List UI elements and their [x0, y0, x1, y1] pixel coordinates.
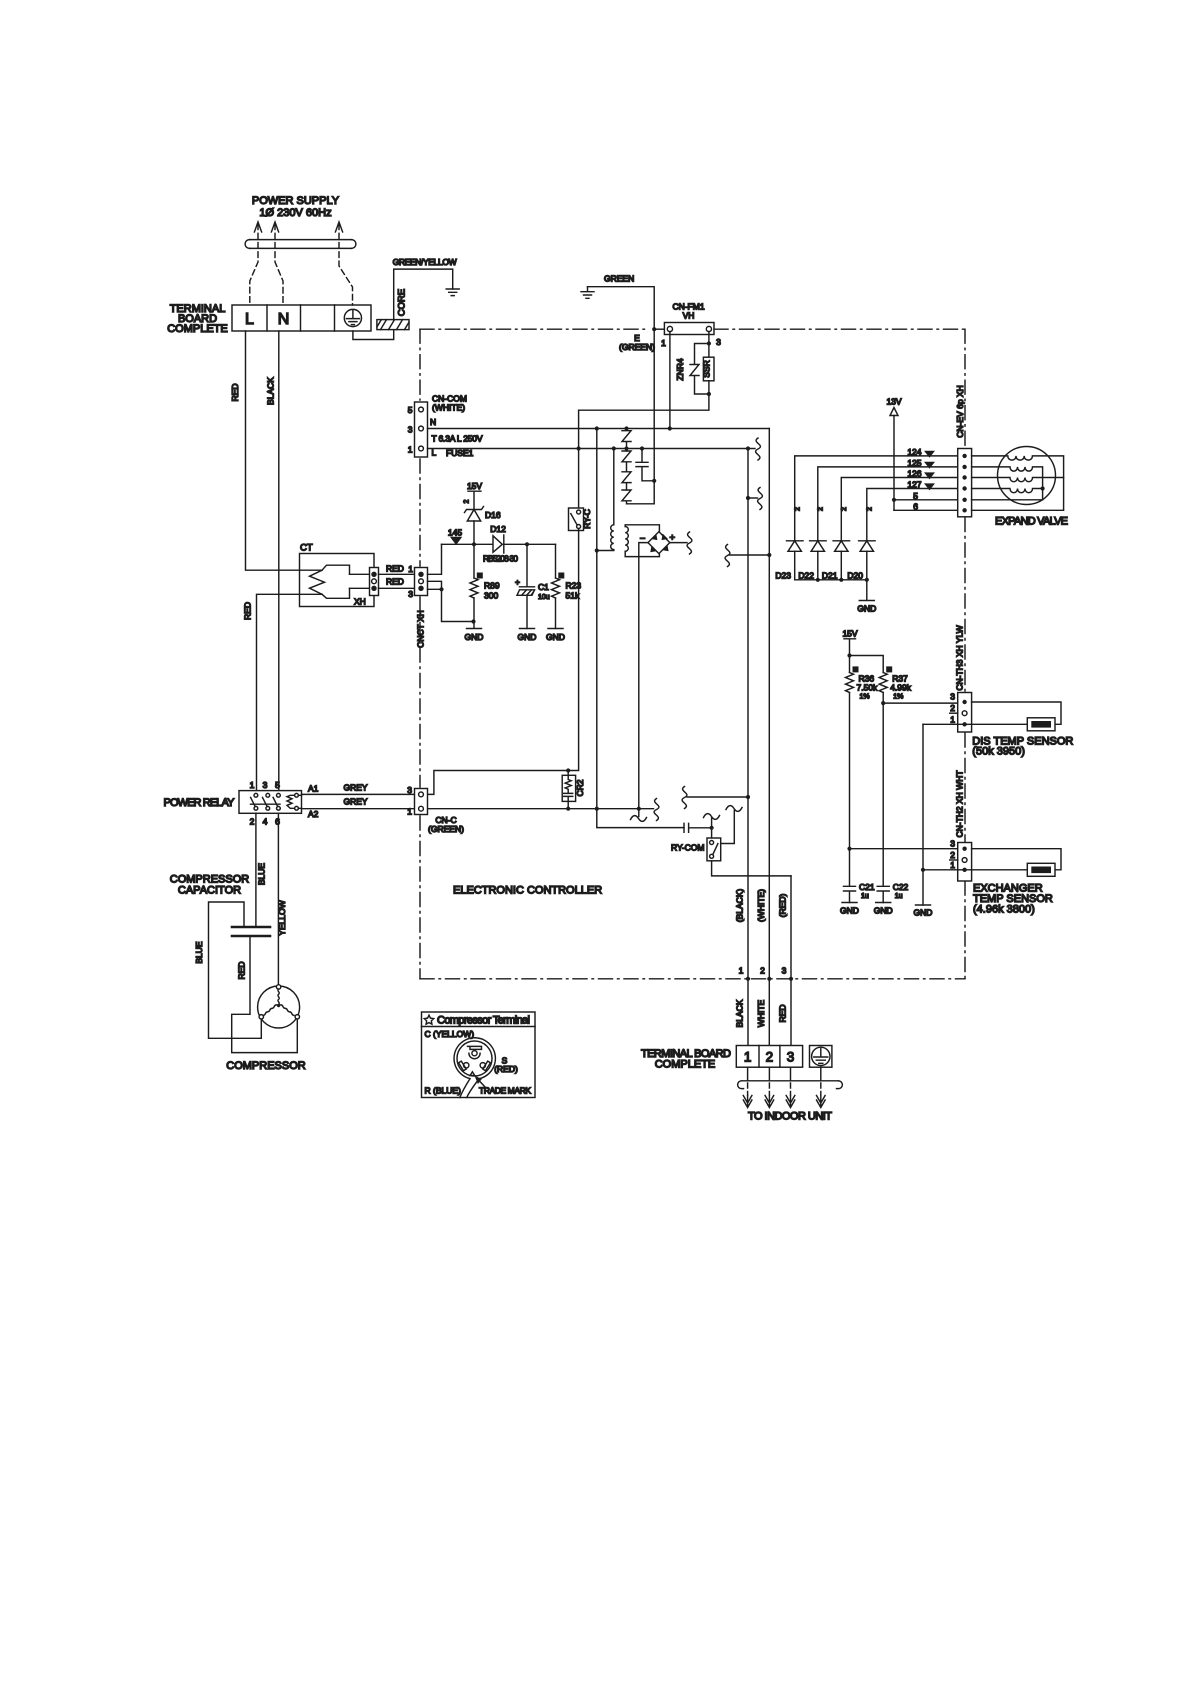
junction	[767, 553, 771, 557]
ground symbol green/yellow	[446, 289, 459, 296]
svg-text:7.50k: 7.50k	[857, 683, 879, 693]
svg-text:POWER RELAY: POWER RELAY	[164, 797, 236, 809]
wire FM1 pin1 down	[669, 332, 671, 429]
ground sensors	[914, 905, 933, 918]
supply arrow 2	[271, 222, 283, 305]
dashed leads to indoor unit	[748, 1083, 821, 1095]
ground terminal bottom	[810, 1046, 832, 1068]
junction CR2 top	[566, 768, 570, 772]
SSR	[702, 344, 715, 395]
connector CN-COM	[408, 402, 428, 457]
svg-text:GND: GND	[857, 604, 876, 614]
ground terminal symbol	[344, 309, 361, 326]
svg-text:CN-EV 6p XH: CN-EV 6p XH	[955, 385, 965, 437]
svg-text:TO INDOOR UNIT: TO INDOOR UNIT	[748, 1111, 832, 1123]
wire EV row 126	[841, 478, 957, 541]
wire EV row 5	[894, 499, 958, 501]
boundary bottom dash-dot	[420, 978, 965, 980]
boundary top dash-dot	[420, 328, 649, 330]
junctions rail	[816, 578, 869, 582]
junction	[472, 542, 476, 546]
svg-text:(50k 3950): (50k 3950)	[972, 746, 1025, 758]
zener diode D16	[465, 507, 501, 545]
svg-text:3: 3	[263, 780, 268, 790]
svg-text:1: 1	[407, 807, 412, 817]
svg-text:+: +	[670, 533, 676, 544]
svg-text:13V: 13V	[886, 397, 901, 407]
svg-text:125: 125	[907, 458, 921, 468]
terminal board complete label (top)	[167, 303, 228, 335]
svg-text:RY-COM: RY-COM	[671, 843, 705, 853]
svg-text:GND: GND	[465, 632, 484, 642]
svg-text:2: 2	[766, 1050, 774, 1065]
resistor R36	[846, 656, 879, 849]
relay contact RY-C	[569, 449, 593, 531]
svg-text:COMPRESSOR: COMPRESSOR	[226, 1060, 306, 1072]
svg-text:D12: D12	[490, 524, 506, 534]
svg-text:CN-TH2 XH WHT: CN-TH2 XH WHT	[955, 770, 965, 837]
ground C1	[518, 629, 537, 643]
label L FUSE1	[432, 448, 474, 459]
wire ground terminal to core	[353, 330, 394, 340]
svg-text:1Ø 230V 60Hz: 1Ø 230V 60Hz	[259, 207, 331, 219]
junction pin3	[707, 341, 711, 345]
labels 124-127 5 6	[907, 447, 921, 511]
svg-text:BLUE: BLUE	[194, 941, 204, 964]
svg-text:BLACK: BLACK	[266, 377, 276, 405]
svg-text:COMPLETE: COMPLETE	[655, 1059, 716, 1071]
legend star	[424, 1015, 433, 1024]
wire CT to CNCT	[379, 574, 415, 588]
svg-text:BLACK: BLACK	[735, 999, 745, 1027]
wire A2 grey	[298, 807, 414, 809]
label CN-COM (WHITE)	[432, 394, 467, 413]
junction	[710, 826, 714, 830]
svg-text:RY-C: RY-C	[582, 509, 592, 529]
wire 15V branch	[850, 656, 884, 673]
svg-text:5: 5	[913, 491, 918, 501]
15V supply right	[842, 629, 857, 656]
svg-text:6: 6	[913, 501, 918, 511]
supply arrow 1	[250, 222, 262, 305]
svg-text:RED: RED	[230, 384, 240, 402]
diode D23	[775, 541, 803, 581]
svg-text:RED: RED	[386, 564, 404, 574]
labels (BLACK)(WHITE)(RED)	[735, 889, 788, 923]
svg-text:2: 2	[795, 507, 802, 511]
wire TH2 pin3 loop	[972, 849, 1061, 870]
compressor motor	[258, 985, 300, 1028]
wire N black	[278, 331, 280, 791]
junction znr bottom	[707, 392, 711, 396]
wire broken to black	[682, 787, 750, 809]
svg-text:5: 5	[408, 405, 413, 415]
svg-text:C21: C21	[859, 882, 875, 892]
svg-text:10u: 10u	[538, 594, 550, 601]
junction green at boundary	[652, 327, 656, 331]
svg-text:RED: RED	[778, 1005, 788, 1023]
wire sensor gnd vertical	[922, 724, 924, 905]
wires below terminal board	[748, 1067, 821, 1081]
connector CN-EV 6p XH	[958, 449, 972, 517]
wire cap bottom red	[232, 936, 298, 1053]
svg-text:CR2: CR2	[575, 779, 585, 796]
label S (RED)	[494, 1056, 518, 1075]
boundary crossing junctions	[746, 977, 793, 981]
compressor capacitor	[232, 927, 270, 936]
wire relay pin2 blue	[255, 813, 257, 927]
connector CN-C	[407, 785, 427, 817]
svg-text:T 6.3A L 250V: T 6.3A L 250V	[432, 434, 483, 444]
wire relay pin6 yellow	[277, 813, 279, 985]
svg-text:2: 2	[950, 850, 955, 860]
svg-text:N: N	[278, 311, 290, 328]
CT side connector	[370, 568, 379, 596]
svg-text:1: 1	[408, 564, 413, 574]
junctions pin1 rail	[566, 807, 641, 811]
svg-text:3: 3	[950, 692, 955, 702]
wire broken to N vertical	[730, 554, 770, 556]
svg-text:1: 1	[950, 860, 955, 870]
svg-text:127: 127	[907, 480, 921, 490]
bridge rectifier	[640, 532, 676, 554]
svg-text:GREY: GREY	[343, 783, 367, 793]
svg-text:GREEN/YELLOW: GREEN/YELLOW	[393, 257, 457, 267]
svg-text:Compressor Terminal: Compressor Terminal	[437, 1015, 530, 1027]
svg-text:3: 3	[950, 839, 955, 849]
wire 15V node rail	[442, 543, 556, 545]
power relay	[239, 791, 302, 814]
wire R36 to TH2	[850, 848, 958, 850]
svg-text:1: 1	[408, 445, 413, 455]
svg-text:C22: C22	[893, 882, 909, 892]
svg-text:C1: C1	[538, 582, 549, 592]
snubber CR2	[562, 771, 585, 809]
svg-text:(RED): (RED)	[778, 894, 788, 918]
terminal drawing outer loop	[454, 1038, 495, 1098]
svg-text:(GREEN): (GREEN)	[428, 824, 464, 834]
svg-text:126: 126	[907, 469, 921, 479]
ground C21	[840, 903, 859, 916]
junction R36 out	[847, 847, 851, 851]
diode D21	[822, 541, 850, 581]
svg-text:R (BLUE): R (BLUE)	[425, 1086, 462, 1096]
polarity marks rows	[924, 451, 935, 491]
svg-text:GND: GND	[840, 906, 859, 916]
svg-text:D21: D21	[822, 571, 838, 581]
svg-text:1%: 1%	[893, 694, 903, 701]
svg-text:1: 1	[661, 338, 666, 348]
terminal S right	[480, 1061, 490, 1071]
ground symbol green	[581, 287, 594, 299]
svg-text:RB5208-30: RB5208-30	[483, 554, 518, 564]
wire L red	[246, 331, 323, 570]
compressor terminal legend box	[422, 1012, 536, 1098]
break squiggle rail end	[654, 799, 659, 821]
connector CN-TH3	[950, 692, 972, 733]
svg-text:1: 1	[950, 715, 955, 725]
ground diodes	[857, 580, 876, 614]
15V supply left	[467, 481, 482, 510]
junctions L rail	[577, 446, 751, 450]
trade mark arrow	[476, 1077, 486, 1088]
CT current transformer	[300, 543, 375, 607]
capacitor RY-COM series	[684, 823, 712, 832]
wire white vertical	[768, 429, 770, 1046]
break squiggle	[725, 545, 730, 567]
wire bridge plus out	[670, 542, 687, 544]
ground R89	[465, 622, 484, 643]
wire TH3 pin3 loop	[972, 702, 1061, 724]
svg-text:POWER SUPPLY: POWER SUPPLY	[252, 195, 340, 207]
svg-text:3: 3	[407, 785, 412, 795]
svg-text:(WHITE): (WHITE)	[432, 403, 465, 413]
svg-text:1: 1	[744, 1050, 752, 1065]
svg-text:C (YELLOW): C (YELLOW)	[425, 1029, 475, 1039]
stub break above RY-COM	[704, 814, 720, 828]
wire CNCT pin1	[428, 544, 442, 574]
junction	[439, 587, 443, 591]
svg-text:5: 5	[275, 780, 280, 790]
svg-text:D20: D20	[847, 571, 863, 581]
svg-text:A2: A2	[308, 809, 319, 819]
dis temp sensor element	[1027, 718, 1055, 731]
junctions N rail	[595, 426, 672, 430]
junction 15V	[847, 653, 851, 657]
svg-text:15V: 15V	[467, 481, 482, 491]
junction coil4	[1041, 486, 1045, 490]
capacitor C22	[877, 882, 908, 903]
diode D20	[847, 541, 875, 581]
svg-text:3: 3	[408, 589, 413, 599]
core	[377, 320, 409, 330]
wire RY-C to CN-C pin3	[428, 531, 579, 795]
junction	[525, 542, 529, 546]
cable bracket bottom	[738, 1081, 843, 1089]
svg-text:6: 6	[275, 817, 280, 827]
svg-text:(4.96k 3800): (4.96k 3800)	[973, 904, 1035, 916]
svg-text:L: L	[245, 311, 254, 328]
resistor R37	[879, 666, 912, 886]
svg-text:3: 3	[787, 1050, 795, 1065]
label CN-C (GREEN)	[428, 815, 464, 834]
relay pin numbers top	[250, 780, 281, 790]
svg-text:3: 3	[716, 337, 721, 347]
label E (GREEN)	[619, 333, 655, 352]
svg-text:GND: GND	[914, 908, 933, 918]
labels BLACK WHITE RED	[735, 999, 788, 1027]
stub break below minus	[631, 809, 647, 822]
svg-text:ELECTRONIC CONTROLLER: ELECTRONIC CONTROLLER	[453, 885, 602, 897]
terminal C top	[468, 1046, 482, 1058]
svg-text:ZNR4: ZNR4	[675, 358, 685, 380]
svg-text:RED: RED	[386, 577, 404, 587]
exchanger temp sensor element	[1027, 863, 1055, 876]
transformer primary	[597, 449, 614, 551]
svg-text:RED: RED	[237, 962, 247, 980]
svg-text:GND: GND	[546, 632, 565, 642]
test point 145	[448, 528, 462, 546]
junction	[471, 619, 475, 623]
svg-text:D22: D22	[798, 571, 814, 581]
resistor R23	[552, 544, 582, 628]
svg-text:1: 1	[250, 780, 255, 790]
svg-text:2: 2	[464, 499, 471, 503]
junction TH2 pin1	[921, 868, 925, 872]
arrester chain Z1-Z4	[622, 429, 654, 504]
svg-text:3: 3	[408, 425, 413, 435]
svg-text:145: 145	[448, 528, 462, 538]
svg-text:EXPAND VALVE: EXPAND VALVE	[995, 516, 1068, 528]
svg-text:VH: VH	[683, 311, 695, 321]
svg-text:GND: GND	[518, 632, 537, 642]
wire CNCT pin2	[428, 581, 442, 589]
junction	[595, 548, 599, 552]
svg-text:2: 2	[250, 817, 255, 827]
svg-text:GREEN: GREEN	[604, 274, 634, 284]
supply arrow 3	[335, 222, 352, 305]
expand valve circle	[998, 447, 1056, 505]
svg-text:2: 2	[760, 966, 765, 976]
capacitor C21	[844, 849, 875, 903]
wire CN-C pin1 rail	[428, 808, 654, 810]
wire black vertical	[747, 449, 749, 1046]
capacitor line filter	[636, 449, 654, 481]
ground C22	[874, 903, 893, 916]
svg-text:1u: 1u	[895, 893, 903, 900]
svg-text:(GREEN): (GREEN)	[619, 342, 655, 352]
wire N branch vertical	[597, 429, 684, 828]
wire bridge minus down	[639, 543, 648, 809]
wire SSR out to L rail	[579, 394, 709, 449]
svg-text:4: 4	[263, 817, 268, 827]
junction	[652, 479, 656, 483]
svg-text:+: +	[515, 577, 520, 587]
svg-text:2: 2	[818, 507, 825, 511]
trade mark triangle	[470, 1072, 475, 1076]
connector CN-FM1	[664, 323, 714, 335]
relay contact RY-COM	[707, 806, 742, 861]
svg-text:3: 3	[782, 966, 787, 976]
svg-text:51k: 51k	[566, 591, 580, 601]
stub break right of black	[746, 488, 763, 510]
wire green	[588, 287, 655, 481]
terminal board complete (top)	[232, 305, 371, 331]
wire TH3 pin1	[923, 723, 1027, 725]
svg-text:1u: 1u	[861, 893, 869, 900]
svg-text:RED: RED	[243, 602, 253, 620]
label COMPRESSOR CAPACITOR	[170, 874, 250, 897]
junction R37 out	[881, 701, 885, 705]
wire cap top loop blue	[209, 902, 262, 1038]
valve coil 1 and loop to pin6	[972, 456, 1064, 510]
capacitor C1	[515, 544, 550, 628]
label EXCHANGER TEMP SENSOR	[973, 883, 1053, 916]
wire EV row 124	[795, 456, 958, 541]
svg-text:1: 1	[739, 966, 744, 976]
ground R23	[546, 629, 565, 643]
wire RY-COM bottom to RED	[712, 861, 791, 876]
wire E to CN-FM1	[654, 328, 664, 330]
connector CNCT XH	[415, 568, 428, 596]
svg-text:(WHITE): (WHITE)	[756, 889, 766, 922]
svg-text:2: 2	[950, 703, 955, 713]
wire EV row 127	[867, 489, 958, 541]
wire L rail	[428, 448, 756, 450]
label CN-FM1 VH	[672, 302, 704, 321]
svg-text:(RED): (RED)	[494, 1064, 518, 1074]
junction 13V pin5	[892, 498, 896, 502]
diode D12	[490, 524, 506, 553]
svg-text:CAPACITOR: CAPACITOR	[178, 885, 241, 897]
connector CN-TH2	[950, 839, 972, 882]
valve coil 2 loop to pin5	[972, 467, 1043, 500]
svg-text:GREY: GREY	[343, 797, 367, 807]
boundary right dash-dot	[964, 329, 966, 448]
wire core to green/yellow ground	[394, 269, 453, 320]
terminal R left	[459, 1061, 469, 1071]
svg-text:N: N	[430, 417, 436, 427]
svg-text:CT: CT	[300, 543, 313, 554]
svg-text:XH: XH	[354, 597, 366, 607]
svg-text:FUSE1: FUSE1	[446, 448, 474, 458]
break squiggle bridge out	[687, 532, 692, 554]
svg-text:WHITE: WHITE	[756, 999, 766, 1027]
svg-text:CORE: CORE	[397, 289, 408, 316]
svg-text:R89: R89	[484, 581, 500, 591]
varistor ZNR4 loop	[675, 332, 709, 394]
svg-text:CN-TH3 XH YLW: CN-TH3 XH YLW	[955, 625, 965, 690]
svg-text:1%: 1%	[860, 694, 870, 701]
label DIS TEMP SENSOR	[972, 736, 1073, 758]
svg-text:2: 2	[841, 507, 848, 511]
break squiggle L rail	[756, 438, 761, 460]
svg-text:D23: D23	[775, 571, 791, 581]
svg-text:300: 300	[484, 591, 498, 601]
svg-text:TRADE MARK: TRADE MARK	[479, 1086, 531, 1096]
relay pin numbers bottom	[250, 817, 281, 827]
wire CNCT pin3 to gnd rail	[428, 589, 474, 621]
label TERMINAL BOARD COMPLETE bottom	[641, 1048, 731, 1071]
svg-text:(BLACK): (BLACK)	[735, 889, 745, 923]
resistor R89	[470, 544, 500, 621]
svg-text:A1: A1	[308, 784, 319, 794]
svg-text:4.99k: 4.99k	[890, 683, 912, 693]
valve coil 4	[972, 489, 1043, 493]
svg-text:BLUE: BLUE	[257, 863, 267, 886]
wire EV row 125	[818, 467, 958, 541]
diode bottom rail	[795, 579, 867, 581]
transformer secondary	[625, 525, 659, 557]
arrows to indoor unit	[743, 1096, 825, 1108]
svg-text:D16: D16	[485, 510, 501, 520]
boundary left dash-dot	[419, 329, 421, 400]
wire TH2 pin1	[923, 869, 1027, 871]
supply cable bracket	[245, 240, 356, 249]
svg-text:124: 124	[907, 447, 921, 457]
labels 2 rotated diodes	[795, 507, 874, 511]
svg-text:YELLOW: YELLOW	[277, 900, 287, 935]
diode D22	[798, 541, 826, 581]
power supply label	[252, 195, 340, 219]
svg-text:COMPLETE: COMPLETE	[167, 323, 228, 335]
wire R37 to TH3	[883, 702, 958, 704]
wire RED CT to power relay	[257, 594, 323, 793]
valve coil 3	[972, 478, 1064, 482]
svg-text:15V: 15V	[842, 629, 857, 639]
wire A1 grey	[298, 793, 414, 796]
wire EV row 6	[894, 509, 958, 511]
